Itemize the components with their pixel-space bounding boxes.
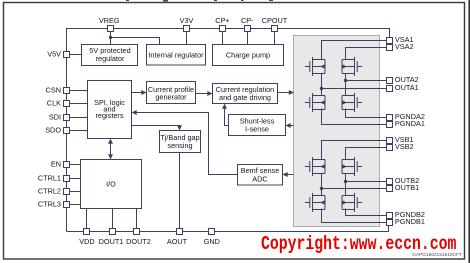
block internal regulator	[147, 45, 206, 66]
wire V5V to 5V regulator	[70, 54, 82, 56]
transistor B high-side left	[305, 157, 325, 176]
svg-text:ADC: ADC	[252, 174, 267, 183]
node junction on VREG drop	[109, 36, 112, 39]
wire PGNDA2	[346, 109, 387, 118]
transistor A low-side right	[342, 93, 362, 112]
transistor A low-side left	[305, 93, 325, 112]
svg-text:CSN: CSN	[46, 85, 61, 94]
pin CP-	[245, 26, 251, 32]
svg-text:V3V: V3V	[180, 16, 194, 25]
svg-text:Internal regulator: Internal regulator	[148, 50, 204, 59]
pin V3V	[184, 26, 190, 32]
right image edge line	[468, 0, 470, 263]
svg-text:VSA2: VSA2	[395, 42, 414, 51]
wire bridge A left mid column	[321, 74, 323, 96]
svg-text:SDI: SDI	[49, 112, 61, 121]
wire bottom bus	[67, 226, 389, 232]
svg-text:CP+: CP+	[215, 16, 229, 25]
svg-text:CPOUT: CPOUT	[262, 16, 288, 25]
svg-text:PGNDB1: PGNDB1	[395, 217, 425, 226]
svg-text:OUTB1: OUTB1	[395, 183, 419, 192]
svg-text:PGNDA1: PGNDA1	[395, 119, 425, 128]
pin CTRL1	[64, 176, 70, 182]
wire shunt-less to current regulation	[225, 107, 229, 126]
svg-text:VDD: VDD	[79, 237, 94, 246]
wire bridge B right mid column	[345, 174, 347, 196]
wire SDO to SPI	[70, 130, 88, 132]
node OUTB2 junction	[344, 180, 347, 183]
svg-text:regulator: regulator	[96, 54, 125, 63]
transistor B low-side left	[305, 193, 325, 212]
wire OUTB2	[346, 181, 387, 183]
wire VSB1	[322, 141, 387, 160]
svg-text:CTRL1: CTRL1	[38, 173, 61, 182]
wire CTRL3 to I/O	[70, 204, 81, 206]
svg-text:OUTA1: OUTA1	[395, 83, 419, 92]
pin SDI	[64, 115, 70, 121]
wire CTRL1 to I/O	[70, 178, 81, 180]
svg-text:I/O: I/O	[106, 180, 116, 189]
pin VSB1	[387, 138, 393, 144]
svg-text:DOUT1: DOUT1	[99, 237, 124, 246]
pin VSA1	[387, 38, 393, 44]
wire PGNDB2	[346, 209, 387, 216]
pin DOUT1	[110, 229, 116, 235]
svg-text:CTRL3: CTRL3	[38, 199, 61, 208]
svg-text:VSB2: VSB2	[395, 142, 414, 151]
wire VSA2	[346, 48, 387, 60]
cropped caption remnants at top	[126, 0, 273, 2]
pin OUTA1	[387, 86, 393, 92]
svg-text:VREG: VREG	[99, 16, 120, 25]
wire OUTA1	[322, 88, 387, 90]
wire I/O to DOUT2	[136, 209, 138, 229]
block current regulation and gate driving	[213, 84, 278, 104]
power stage gray block	[294, 36, 380, 227]
svg-text:AOUT: AOUT	[167, 237, 188, 246]
wire PGNDB1	[322, 209, 387, 223]
block charge pump	[213, 45, 284, 66]
svg-text:SDO: SDO	[45, 125, 61, 134]
svg-text:GND: GND	[204, 237, 220, 246]
pin PGNDA1	[387, 122, 393, 128]
wire I/O to VDD	[86, 209, 88, 229]
pin PGNDB2	[387, 213, 393, 219]
arrow current profile generator to current regulation	[196, 93, 209, 95]
svg-text:I-sense: I-sense	[245, 124, 269, 133]
pin OUTB2	[387, 179, 393, 185]
pin CTRL3	[64, 202, 70, 208]
wire I/O to DOUT1	[112, 209, 114, 229]
wire top bus	[67, 29, 390, 232]
node OUTB1 junction	[320, 187, 323, 190]
transistor B low-side right	[342, 193, 362, 212]
svg-text:CP-: CP-	[241, 16, 254, 25]
arrow SPI to current profile generator	[132, 92, 143, 94]
wire PGNDA1	[322, 109, 387, 125]
wire CP- drop	[247, 32, 249, 45]
block current profile generator	[147, 82, 196, 104]
block SPI logic and registers	[88, 81, 132, 139]
wire V3V drop	[186, 32, 188, 45]
svg-text:registers: registers	[96, 111, 124, 120]
pin PGNDB1	[387, 220, 393, 226]
svg-text:V5V: V5V	[47, 49, 61, 58]
transistor A high-side right	[342, 57, 362, 76]
node OUTA1 junction	[320, 87, 323, 90]
wire EN to I/O	[70, 164, 81, 166]
block Tj/Band gap sensing	[160, 131, 201, 153]
svg-text:and gate driving: and gate driving	[219, 93, 271, 102]
wire CPOUT drop	[274, 32, 276, 45]
svg-text:sensing: sensing	[167, 141, 192, 150]
pin VREG	[108, 26, 114, 32]
pin GND	[209, 229, 215, 235]
block shunt-less I-sense	[229, 115, 286, 136]
svg-text:generator: generator	[155, 93, 187, 102]
pin CLK	[64, 101, 70, 107]
svg-text:GAPG1802151618CFT: GAPG1802151618CFT	[412, 252, 462, 258]
wire CTRL2 to I/O	[70, 191, 81, 193]
pin CP+	[220, 26, 226, 32]
pin PGNDA2	[387, 115, 393, 121]
pin VDD	[84, 229, 90, 235]
double arrow SPI to I/O	[110, 142, 112, 156]
wire bridge B left mid column	[321, 174, 323, 196]
node OUTA2 junction	[344, 79, 347, 82]
pin EN	[64, 162, 70, 168]
transistor B high-side right	[342, 157, 362, 176]
block I/O	[81, 160, 142, 209]
arrow power stage to Bemf sense ADC	[286, 174, 294, 176]
svg-text:CLK: CLK	[47, 98, 61, 107]
wire VSB2	[346, 148, 387, 160]
wire VREG drop	[110, 32, 112, 45]
block 5V protected regulator	[82, 45, 138, 66]
wire OUTB1	[322, 188, 387, 190]
pin OUTA2	[387, 78, 393, 84]
wire SDI to SPI	[70, 117, 88, 119]
wire SPI to Tj sensing	[132, 126, 180, 128]
arrow current regulation to power stage	[278, 92, 291, 94]
block Bemf sense ADC	[238, 165, 283, 186]
pin VSA2	[387, 45, 393, 51]
pin AOUT	[177, 229, 183, 235]
svg-text:DOUT2: DOUT2	[126, 237, 151, 246]
svg-text:CTRL2: CTRL2	[38, 186, 61, 195]
wire Tj sensing to AOUT	[179, 153, 181, 229]
pin VSB2	[387, 145, 393, 151]
pin DOUT2	[134, 229, 140, 235]
wire CSN to SPI	[70, 90, 88, 92]
wire Bemf ADC to SPI	[135, 113, 237, 175]
pin CSN	[64, 88, 70, 94]
arrow power stage to shunt-less I-sense	[289, 125, 294, 127]
wire CLK to SPI	[70, 103, 88, 105]
transistor A high-side left	[305, 57, 325, 76]
wire bridge A right mid column	[345, 74, 347, 96]
pin V5V	[64, 52, 70, 58]
pin CTRL2	[64, 189, 70, 195]
svg-text:Charge pump: Charge pump	[226, 51, 270, 60]
pin SDO	[64, 128, 70, 134]
wire OUTA2	[346, 80, 387, 82]
pin OUTB1	[387, 186, 393, 192]
wire CP+ drop	[222, 32, 224, 45]
pin CPOUT	[272, 26, 278, 32]
svg-text:EN: EN	[51, 159, 61, 168]
wire VSA1	[322, 41, 387, 60]
wire VREG branch to internal regulator	[111, 38, 160, 45]
